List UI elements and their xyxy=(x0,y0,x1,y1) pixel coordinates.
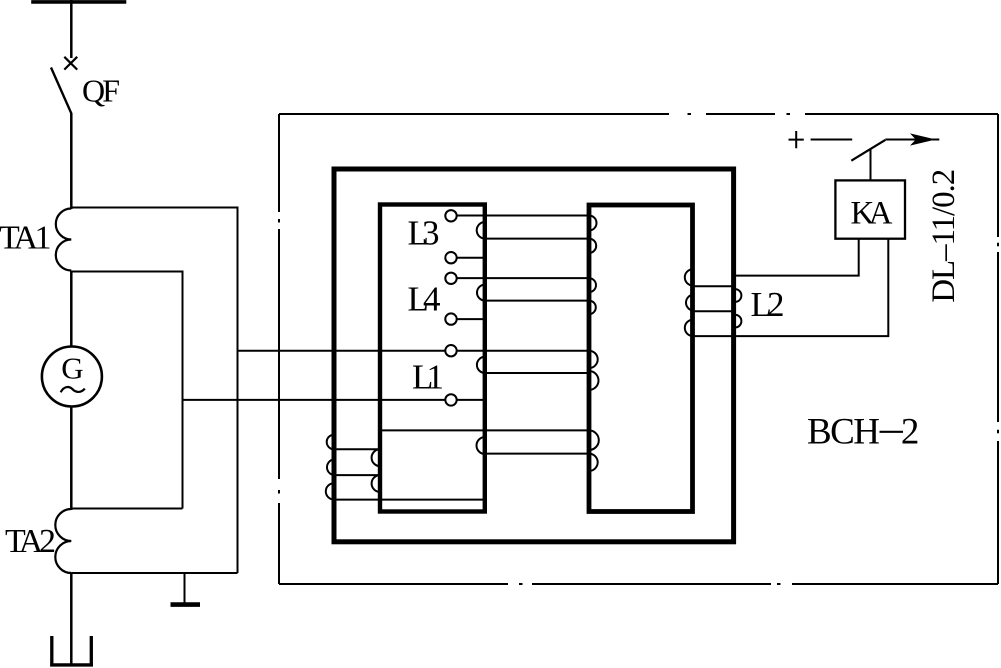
winding bump right-leg B5a xyxy=(589,351,598,368)
wire w3 xyxy=(457,257,485,259)
contact blade xyxy=(851,140,885,161)
winding L2 bump 1 xyxy=(685,269,693,285)
current transformer TA2 xyxy=(55,509,71,573)
winding bump left-box-edge lb1 xyxy=(372,449,380,466)
wire bus QF to TA1 xyxy=(70,114,73,210)
wire w13 xyxy=(334,448,380,450)
svg-text:BCH: BCH xyxy=(807,412,880,453)
wire L2 loop b xyxy=(693,310,735,312)
ground xyxy=(184,573,186,603)
wire w8 xyxy=(485,372,589,374)
svg-text:KA: KA xyxy=(851,195,893,231)
winding bump left-leg b4 xyxy=(477,437,486,454)
wire to terminal L1 upper xyxy=(238,350,446,352)
wire to terminal L1 lower xyxy=(183,399,446,401)
wire L2 to KA left xyxy=(735,239,859,276)
dash-dot enclosure top xyxy=(279,113,998,115)
relay KA box xyxy=(835,180,905,238)
wire w4 xyxy=(457,277,589,279)
wire w14 xyxy=(334,474,380,476)
svg-text:DL–11/0.2: DL–11/0.2 xyxy=(926,169,962,303)
wire TA1 lower secondary xyxy=(71,272,182,509)
winding L2 outer bump 1 xyxy=(735,289,741,302)
wire plus to contact xyxy=(811,139,853,141)
wire bus TA2 down xyxy=(70,573,73,664)
wire w12 shunt bottom xyxy=(334,499,486,501)
winding bump right-leg B5b xyxy=(589,371,599,390)
dash-dot enclosure right xyxy=(997,114,999,584)
wire w9 xyxy=(457,399,485,401)
plus terminal xyxy=(789,131,804,148)
winding bump left-leg b3 xyxy=(477,357,485,373)
transformer core outer box xyxy=(334,169,734,542)
svg-text:L2: L2 xyxy=(751,285,785,324)
svg-text:L1: L1 xyxy=(412,358,444,397)
winding bump right-leg B6 xyxy=(589,430,599,450)
current transformer TA1 xyxy=(56,209,72,271)
wire bus generator to TA2 xyxy=(70,407,73,511)
winding L2 bump 2 xyxy=(686,295,693,311)
wire TA2 upper secondary xyxy=(71,508,182,510)
svg-text:QF: QF xyxy=(82,73,120,109)
wire w1 xyxy=(457,215,589,217)
breaker X contact mark xyxy=(64,57,77,70)
winding bump outer-edge ob1 xyxy=(327,435,334,450)
wire w2 xyxy=(485,238,589,240)
dash-dot enclosure bottom xyxy=(279,583,998,585)
winding bump right-leg B1 xyxy=(589,216,597,231)
terminal circle L1 lower xyxy=(445,394,456,405)
transformer left leg box xyxy=(380,205,485,512)
winding bump outer-edge ob2 xyxy=(327,459,334,475)
winding bump right-leg B7 xyxy=(589,454,598,471)
arrowhead xyxy=(912,134,934,145)
wire w6 xyxy=(457,318,485,320)
terminal circle L1 upper xyxy=(445,345,456,356)
wire KA top xyxy=(870,149,872,181)
winding bump right-leg B3 xyxy=(589,278,596,292)
dash-dot enclosure left xyxy=(278,114,280,584)
wire bus TA1 to generator xyxy=(70,271,73,348)
generator G xyxy=(42,347,102,407)
terminal circle L3 lower xyxy=(445,252,456,263)
svg-text:2: 2 xyxy=(901,412,920,453)
svg-text:L3: L3 xyxy=(408,213,440,252)
wire w7 xyxy=(457,350,589,352)
wire w10 shunt top xyxy=(380,429,589,431)
wire contact to arrow xyxy=(885,139,939,141)
winding bump right-leg B2 xyxy=(589,239,596,253)
winding bump outer-edge ob3 xyxy=(326,483,334,499)
bottom terminal connector xyxy=(52,636,92,664)
busbar xyxy=(31,0,126,4)
svg-text:TA2: TA2 xyxy=(5,523,56,560)
winding bump left-leg b1 xyxy=(477,222,485,239)
terminal circle L4 upper xyxy=(445,273,456,284)
transformer right leg box xyxy=(589,205,693,512)
svg-text:TA1: TA1 xyxy=(0,220,52,257)
winding L2 outer bump 2 xyxy=(735,315,741,328)
breaker QF blade xyxy=(51,68,72,114)
terminal circle L4 lower xyxy=(445,313,456,324)
winding bump left-leg b2 xyxy=(477,285,485,301)
winding L2 bump 3 xyxy=(685,320,693,336)
wire L2 loop a xyxy=(693,285,735,287)
winding bump left-box-edge lb2 xyxy=(372,475,380,492)
wire TA1 upper secondary xyxy=(71,208,237,574)
winding bump right-leg B4 xyxy=(589,301,596,315)
wire TA2 lower secondary xyxy=(71,572,237,574)
terminal circle L3 upper xyxy=(445,210,456,221)
wire w5 xyxy=(485,300,589,302)
wire w11 xyxy=(485,453,589,455)
svg-text:L4: L4 xyxy=(408,280,441,319)
wire L2 to KA right xyxy=(693,239,888,336)
svg-text:G: G xyxy=(61,351,83,386)
wire bus drop from busbar xyxy=(70,0,73,58)
